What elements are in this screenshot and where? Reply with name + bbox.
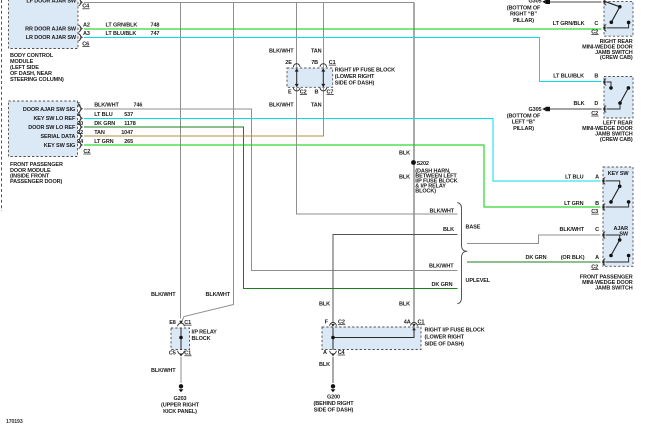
svg-text:D: D [594, 101, 598, 107]
svg-text:BASE: BASE [466, 225, 481, 231]
wire BLK/WHT vertical to relay block E8 [180, 2, 182, 318]
svg-text:I/P RELAY: I/P RELAY [192, 329, 218, 335]
pin D connector symbol (left rear) [603, 106, 607, 113]
svg-text:(BOTTOM OF: (BOTTOM OF [507, 113, 541, 119]
pin A connector symbol (ajar sw) [602, 259, 606, 266]
connector C1 label (relay top) [184, 320, 191, 326]
svg-text:RIGHT “B”: RIGHT “B” [510, 12, 537, 18]
pin B connector symbol (left rear) [603, 79, 607, 86]
connector C2 label of FPDM [83, 149, 90, 155]
svg-text:KEY SW LO REF: KEY SW LO REF [33, 116, 75, 122]
pin C5 connector symbol [178, 351, 185, 357]
svg-text:A: A [595, 174, 599, 180]
pin C connector symbol [603, 25, 607, 32]
wire BLK/WHT 746 from pin 5 to brace [84, 109, 457, 270]
pin 4A connector symbol [411, 323, 418, 327]
svg-text:KEY SW: KEY SW [608, 171, 630, 177]
svg-text:E8: E8 [169, 320, 176, 326]
svg-text:537: 537 [124, 112, 133, 118]
wire BLK/WHT vertical into fuse block pin 2E [296, 2, 298, 67]
ground G200 symbol [331, 384, 336, 392]
relay block internal wire with junction [179, 328, 183, 350]
front passenger door module box [9, 101, 78, 157]
wire BLK/WHT from fuse block pin E to brace [297, 88, 458, 214]
wire label DK GRN (OR BLK) at ajar sw pin A [526, 255, 585, 261]
fuse block internal wire with junction [331, 327, 416, 350]
connector C2 label (left rear) [591, 111, 598, 117]
pin A connector symbol [330, 351, 337, 357]
svg-text:DK GRN: DK GRN [526, 255, 547, 261]
svg-text:(CREW CAB): (CREW CAB) [600, 137, 633, 143]
svg-text:2E: 2E [285, 60, 292, 66]
wire label LT GRN/BLK 748 [106, 23, 160, 29]
wire LT GRN/BLK 748 to right rear jamb switch pin C [84, 28, 602, 30]
svg-text:BLOCK): BLOCK) [415, 188, 436, 194]
pin B connector symbol [320, 88, 327, 91]
svg-text:B: B [315, 89, 319, 95]
pin B connector symbol (key sw) [602, 204, 606, 211]
right I/P fuse block (upper) box [287, 68, 333, 87]
svg-text:LT BLU: LT BLU [565, 174, 584, 180]
connector C7 label (fuse bottom) [327, 89, 334, 95]
pin 22 label [77, 130, 133, 136]
right I/P fuse block (lower) box [322, 327, 421, 350]
wire LT BLU 537 from pin 6 to key switch pin A [84, 118, 601, 181]
svg-text:BLK: BLK [319, 302, 330, 308]
svg-text:746: 746 [134, 103, 143, 109]
svg-text:TAN: TAN [311, 103, 322, 109]
connector C4 label (fuse2 bottom) [338, 350, 346, 356]
svg-text:1047: 1047 [121, 130, 133, 136]
pin 7B connector symbol [320, 64, 327, 67]
fuse block internal circuit 2E-E double arrow [295, 68, 299, 87]
svg-text:C5: C5 [169, 351, 176, 357]
connector C6 label [82, 41, 89, 47]
svg-text:PILLAR): PILLAR) [513, 126, 534, 132]
svg-text:G305: G305 [529, 0, 542, 4]
wire BLK fuse2 to ground G200 [332, 357, 334, 383]
svg-text:LT GRN/BLK: LT GRN/BLK [106, 23, 138, 29]
FPDM pin connector symbols (5,6,20,22,24) [79, 105, 83, 112]
svg-text:BLK: BLK [443, 227, 454, 233]
pin A connector symbol (key sw) [602, 178, 606, 185]
right rear mini-wedge door jamb switch box [604, 1, 633, 36]
svg-text:BLK/WHT: BLK/WHT [269, 49, 294, 55]
svg-text:DOOR AJAR SW SIG: DOOR AJAR SW SIG [23, 107, 75, 113]
fuse block internal circuit 7B-B double arrow [321, 68, 325, 87]
connector C2 label (right rear) [591, 29, 598, 35]
ground G200 caption [314, 394, 355, 413]
svg-text:6: 6 [78, 112, 81, 118]
wire LT BLU/BLK 747 to left rear jamb switch pin B [84, 37, 602, 81]
BCM pin connector symbols (cut row, A2, A3) [79, 0, 83, 6]
key switch internals [606, 181, 631, 207]
pin C connector symbol (ajar sw) [602, 232, 606, 239]
svg-text:LEFT “B”: LEFT “B” [512, 120, 536, 126]
BCM caption [10, 53, 64, 83]
svg-text:BLK/WHT: BLK/WHT [429, 264, 454, 270]
wire label LT BLU/BLK 747 [106, 31, 160, 37]
svg-text:LT BLU: LT BLU [94, 112, 113, 118]
svg-text:BLK: BLK [399, 175, 410, 181]
body control module U1 box [9, 0, 79, 49]
svg-text:B: B [595, 201, 599, 207]
connector C1 label (fuse2 top) [418, 320, 425, 326]
connector C4 label [82, 4, 90, 10]
svg-text:SW: SW [619, 231, 629, 237]
svg-text:JAMB SWITCH: JAMB SWITCH [595, 285, 633, 291]
svg-text:BLK/WHT: BLK/WHT [559, 227, 584, 233]
svg-text:LF DOOR AJAR SW: LF DOOR AJAR SW [26, 0, 77, 5]
svg-text:(LOWER RIGHT: (LOWER RIGHT [425, 335, 465, 341]
svg-text:(BOTTOM OF: (BOTTOM OF [507, 5, 541, 11]
svg-text:22: 22 [77, 130, 83, 136]
svg-text:170193: 170193 [6, 419, 23, 425]
S202 caption [415, 161, 457, 194]
G305 left caption [507, 113, 541, 132]
wire BLK from brace to fuse block pin F [333, 235, 457, 323]
svg-text:E: E [288, 89, 292, 95]
svg-text:SIDE OF DASH): SIDE OF DASH) [425, 342, 465, 348]
pin F connector symbol [330, 323, 337, 327]
left rear switch internals [607, 82, 631, 109]
svg-text:BLK/WHT: BLK/WHT [429, 209, 454, 215]
wire BLK from G305 right to right rear switch top pin [550, 1, 602, 3]
svg-text:RIGHT I/P FUSE BLOCK: RIGHT I/P FUSE BLOCK [425, 328, 485, 334]
connector C2 label (fuse bottom) [300, 89, 307, 95]
svg-text:(UPPER RIGHT: (UPPER RIGHT [161, 403, 200, 409]
ground point G305 right B pillar (cut) [529, 0, 550, 4]
svg-text:BLK: BLK [574, 101, 585, 107]
svg-text:SIDE OF DASH): SIDE OF DASH) [314, 407, 354, 413]
svg-text:RR DOOR AJAR SW: RR DOOR AJAR SW [25, 26, 77, 32]
G305 right caption [507, 5, 541, 24]
svg-text:PASSENGER DOOR): PASSENGER DOOR) [10, 179, 62, 185]
wire BLK from G305 left to left rear switch pin D [550, 108, 602, 110]
right rear switch caption [582, 39, 633, 61]
connector C1 label (fuse top) [329, 60, 336, 66]
svg-text:BLOCK: BLOCK [192, 336, 211, 342]
I/P relay block caption [192, 329, 218, 342]
svg-text:UPLEVEL: UPLEVEL [466, 278, 491, 284]
pin 6 label [78, 112, 134, 118]
svg-text:G305: G305 [529, 107, 542, 113]
pin E connector symbol [293, 88, 300, 91]
connector C1 label (relay bottom) [184, 351, 191, 357]
pin 20 label [77, 121, 136, 127]
splice S202 [411, 160, 416, 165]
pin 5 label [78, 103, 143, 109]
svg-text:20: 20 [77, 121, 83, 127]
wire BLK from S202 to fuse block pin 4A [413, 2, 415, 322]
I/P relay block box [171, 328, 190, 350]
svg-text:BLK: BLK [319, 362, 330, 368]
svg-text:LT BLU/BLK: LT BLU/BLK [106, 31, 137, 37]
wire DK GRN brace output to ajar switch pin A [467, 261, 601, 263]
FPDM caption [10, 162, 63, 185]
wire TAN 1047 from pin 22 to fuse block pin B [84, 88, 323, 136]
svg-text:KICK PANEL): KICK PANEL) [163, 409, 197, 415]
svg-text:A: A [323, 350, 327, 356]
fuse block caption (lower) [425, 328, 485, 348]
svg-text:BLK/WHT: BLK/WHT [151, 368, 176, 374]
svg-text:G200: G200 [327, 394, 340, 400]
wire LT GRN 265 from pin 24 to key switch pin B [84, 145, 601, 207]
wire cut top row BLK/WHT bus [84, 1, 414, 3]
svg-text:SERIAL DATA: SERIAL DATA [40, 134, 75, 140]
svg-text:BLK: BLK [399, 151, 410, 157]
svg-text:(OR BLK): (OR BLK) [561, 255, 585, 261]
right rear switch internals [606, 2, 630, 28]
svg-text:BLK/WHT: BLK/WHT [94, 103, 119, 109]
svg-text:LR DOOR AJAR SW: LR DOOR AJAR SW [26, 35, 77, 41]
pin 2E connector symbol [293, 64, 300, 67]
svg-text:BLK/WHT: BLK/WHT [151, 292, 176, 298]
svg-text:A: A [595, 255, 599, 261]
svg-text:(CREW CAB): (CREW CAB) [600, 55, 633, 61]
wire BLK/WHT relay to ground G203 [180, 357, 182, 383]
label AJAR SW [614, 226, 629, 237]
connector C2 label (fuse2 top) [338, 320, 345, 326]
connector C3 label [591, 209, 598, 215]
svg-text:RIGHT I/P FUSE BLOCK: RIGHT I/P FUSE BLOCK [335, 68, 395, 74]
cropped outer box edge (left margin dashed line) [1, 0, 3, 211]
svg-text:1178: 1178 [124, 121, 136, 127]
svg-text:KEY SW SIG: KEY SW SIG [44, 143, 75, 149]
svg-text:G203: G203 [174, 396, 187, 402]
wire BLK/WHT brace output to ajar switch pin C [467, 235, 601, 244]
svg-text:A2: A2 [83, 23, 90, 29]
connector C2 label (ajar sw) [591, 264, 598, 270]
wire TAN vertical into fuse block pin 7B [322, 2, 324, 67]
ground point G305 left B pillar [529, 107, 550, 113]
svg-text:S202: S202 [417, 161, 429, 167]
svg-text:BLK/WHT: BLK/WHT [269, 103, 294, 109]
ground G203 caption [161, 396, 200, 415]
left rear mini-wedge door jamb switch box [604, 77, 633, 119]
svg-text:C: C [594, 21, 598, 27]
wire DK GRN 1178 from pin 20 to brace [84, 127, 457, 289]
svg-text:LT GRN/BLK: LT GRN/BLK [553, 21, 585, 27]
svg-text:LT GRN: LT GRN [564, 201, 583, 207]
svg-text:B: B [594, 74, 598, 80]
front passenger switch caption [580, 275, 633, 292]
pin 24 label [77, 139, 133, 145]
left rear switch caption [582, 121, 633, 143]
wire BLK/WHT vertical with bend to E8 [182, 2, 234, 321]
svg-text:TAN: TAN [94, 130, 105, 136]
svg-text:DOOR SW LO REF: DOOR SW LO REF [28, 125, 76, 131]
svg-text:STEERING COLUMN): STEERING COLUMN) [10, 77, 64, 83]
svg-text:4A: 4A [404, 320, 411, 326]
front passenger mini-wedge door jamb switch box [603, 167, 633, 266]
svg-text:A3: A3 [83, 31, 90, 37]
brace grouping BASE/UPLEVEL wires [457, 203, 467, 304]
svg-text:BLK/WHT: BLK/WHT [205, 292, 230, 298]
svg-text:TAN: TAN [311, 49, 322, 55]
svg-text:747: 747 [151, 31, 160, 37]
svg-text:(LOWER RIGHT: (LOWER RIGHT [335, 74, 375, 80]
ajar switch internals [606, 235, 631, 262]
svg-text:C: C [595, 227, 599, 233]
svg-text:DK GRN: DK GRN [432, 282, 453, 288]
svg-text:(BEHIND RIGHT: (BEHIND RIGHT [314, 401, 355, 407]
svg-text:SIDE OF DASH): SIDE OF DASH) [335, 80, 375, 86]
fuse block caption (upper) [335, 68, 395, 87]
svg-text:748: 748 [151, 23, 160, 29]
svg-text:5: 5 [78, 103, 81, 109]
pin top connector symbol (right rear, BLK) [603, 0, 607, 5]
ground G203 symbol [179, 384, 184, 392]
svg-text:PILLAR): PILLAR) [513, 18, 534, 24]
svg-text:265: 265 [124, 139, 133, 145]
pin E8 connector symbol [178, 321, 185, 327]
svg-text:7B: 7B [311, 60, 318, 66]
svg-text:LT GRN: LT GRN [94, 139, 113, 145]
svg-text:LT BLU/BLK: LT BLU/BLK [553, 74, 584, 80]
svg-text:DK GRN: DK GRN [94, 121, 115, 127]
svg-text:BLK: BLK [399, 302, 410, 308]
